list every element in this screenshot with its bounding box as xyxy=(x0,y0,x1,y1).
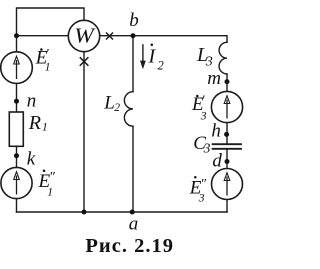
capacitor C3 bottom plate xyxy=(213,148,241,150)
svg-text:2: 2 xyxy=(114,102,120,114)
wire wattmeter voltage coil down to bottom wire xyxy=(83,52,85,212)
label E1'' xyxy=(38,170,56,199)
label E3'' xyxy=(189,176,206,205)
wire E3'' bottom to bottom-right corner xyxy=(226,199,228,212)
wire bottom rail from left corner to right corner xyxy=(17,211,228,213)
svg-text:1: 1 xyxy=(42,122,48,134)
svg-text:h: h xyxy=(211,121,221,142)
resistor R1 xyxy=(9,112,23,146)
svg-text:d: d xyxy=(212,151,222,172)
wire R1 bottom through node k to E1'' top xyxy=(16,146,18,167)
svg-text:m: m xyxy=(207,68,221,89)
wattmeter asterisk terminal on right (cross) xyxy=(106,33,113,40)
wire from node to wattmeter left terminal xyxy=(17,35,69,37)
svg-text:1: 1 xyxy=(45,62,51,74)
svg-text:′: ′ xyxy=(202,94,206,109)
wire E1'' bottom to bottom-left corner xyxy=(16,199,18,212)
node m xyxy=(225,79,230,84)
svg-text:I: I xyxy=(148,46,157,68)
svg-text:L: L xyxy=(103,93,115,114)
node b xyxy=(131,33,136,38)
svg-text:a: a xyxy=(129,213,139,234)
wire E3' bottom through node h to C3 top plate xyxy=(226,123,228,145)
inductor L3 xyxy=(219,42,227,74)
svg-text:3: 3 xyxy=(198,193,205,205)
node d xyxy=(225,159,230,164)
source E1' circle with up arrow xyxy=(1,52,33,84)
svg-text:n: n xyxy=(27,91,37,112)
wire node b down to L2 top xyxy=(132,36,134,92)
node h xyxy=(224,132,229,137)
junction of wattmeter wire with bottom rail xyxy=(82,210,87,215)
wire C3 bottom plate through node d to E3'' top xyxy=(226,149,228,169)
svg-text:2: 2 xyxy=(158,58,164,72)
label R1 xyxy=(28,112,48,134)
svg-text:W: W xyxy=(74,24,96,48)
current arrow I2 xyxy=(140,44,146,69)
source E1'' circle with up arrow xyxy=(1,167,32,198)
svg-text:′: ′ xyxy=(46,47,50,62)
label L2 xyxy=(103,93,120,114)
svg-text:R: R xyxy=(28,112,41,134)
svg-text:Рис. 2.19: Рис. 2.19 xyxy=(85,235,174,257)
wattmeter W xyxy=(68,20,99,51)
wattmeter asterisk terminal below (cross) xyxy=(80,57,89,66)
node a xyxy=(130,210,135,215)
svg-text:″: ″ xyxy=(49,170,55,185)
node k xyxy=(14,153,19,158)
source E3'' circle with up arrow xyxy=(212,169,243,200)
wire left branch node to E1' top xyxy=(16,36,18,52)
svg-text:″: ″ xyxy=(200,177,206,192)
wire L3 bottom through node m to E3' top xyxy=(226,74,228,92)
svg-text:1: 1 xyxy=(47,187,53,199)
label E1' xyxy=(35,47,51,73)
svg-text:3: 3 xyxy=(200,111,207,123)
svg-text:b: b xyxy=(129,10,139,31)
label E3' xyxy=(191,94,207,123)
node at E1' top junction xyxy=(14,33,19,38)
label I2 xyxy=(148,44,164,73)
svg-text:k: k xyxy=(27,149,36,170)
node n xyxy=(14,99,19,104)
wire wattmeter right terminal to node b to top-right corner xyxy=(100,36,227,43)
label C3 xyxy=(193,133,210,155)
source E3' circle with up arrow xyxy=(211,91,242,122)
wire E1' bottom through node n to R1 top xyxy=(16,84,18,112)
svg-text:3: 3 xyxy=(203,140,211,155)
wire L2 bottom to node a xyxy=(132,126,134,212)
capacitor C3 top plate xyxy=(213,143,241,145)
wire top-left loop from E1' node up and over to wattmeter top xyxy=(17,8,85,36)
inductor L2 xyxy=(124,92,133,127)
label L3 xyxy=(196,44,213,70)
